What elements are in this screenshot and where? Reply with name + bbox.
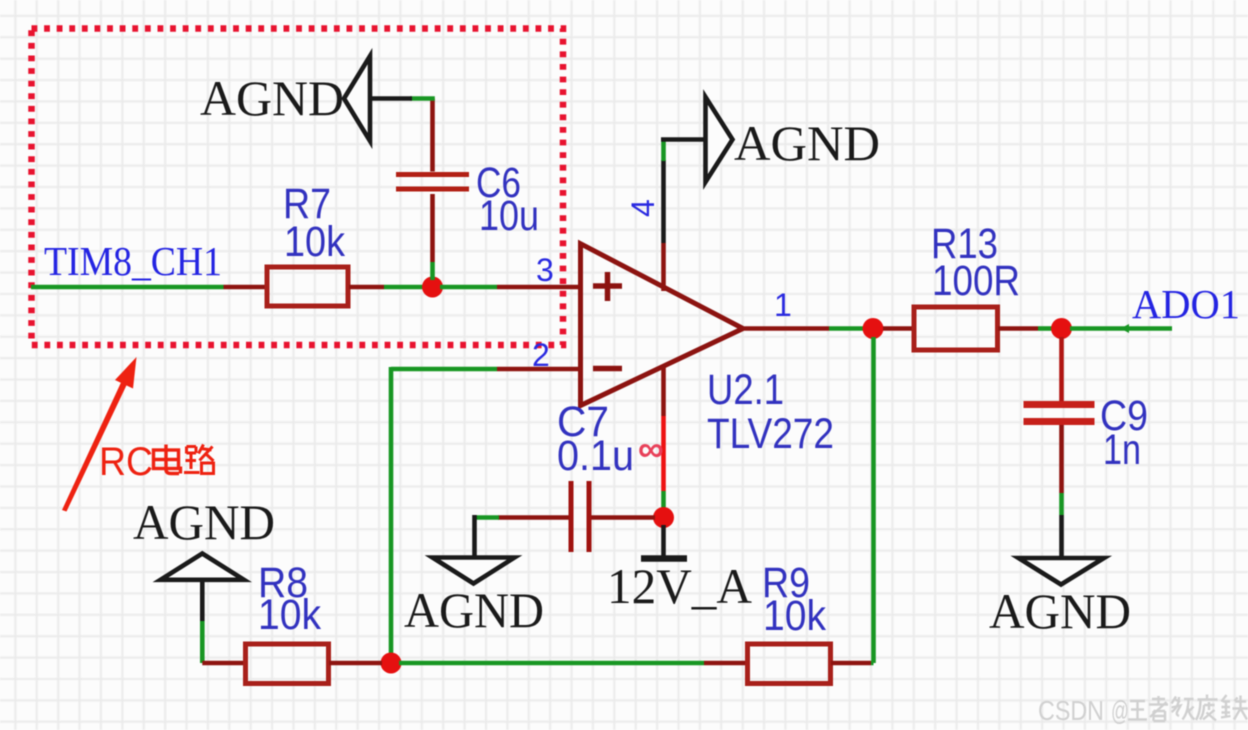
pin number 3 [536,252,554,288]
power 12V_A bar [641,555,687,562]
label C6 [476,159,521,207]
power text AGND (R8) [133,494,275,550]
svg-text:AGND: AGND [734,115,880,171]
op-amp plus input mark [593,272,622,301]
annotation glyph DIAN (electric) [154,445,181,474]
ground stem (C7) [472,515,477,558]
wire green to junction [384,285,425,290]
wire green to ADO1 junction [1038,326,1054,331]
wire green to output junction [829,326,866,331]
resistor R13 [914,307,998,350]
svg-text:TLV272: TLV272 [707,410,834,458]
wire R8 right lead [329,661,382,666]
svg-text:10k: 10k [763,592,826,640]
svg-text:12V_A: 12V_A [607,558,752,614]
wire bright red to 12V_A [661,416,666,491]
label C7 [557,398,609,446]
junction node at 12V_A [653,507,674,528]
wire green at AGND corner [410,96,435,101]
svg-text:AGND: AGND [404,582,544,638]
resistor R7 [267,267,348,306]
annotation text RC (red) [99,440,153,484]
junction node at ADO1 [1051,318,1072,339]
svg-text:1n: 1n [1103,426,1141,474]
wire R9 right lead [831,661,871,666]
wire green pin2 horizontal [391,367,497,372]
label 100R [932,257,1020,305]
power text AGND top-left [200,70,344,126]
svg-text:10u: 10u [479,192,539,240]
infinity mark (red) [638,428,664,469]
ground AGND (left-pointing triangle, top-left) [344,56,370,141]
ground AGND (right-pointing triangle, top-middle) [706,97,733,182]
pin number 1 [774,287,792,323]
junction node at R7/C6 [422,277,443,298]
net label ADO1 [1132,281,1240,327]
wire TIM8_CH1 to R7 (green) [31,285,224,290]
ground stem black (R8) [200,581,205,622]
wire green feedback right vertical [871,337,874,663]
watermark glyph TIE [1221,695,1248,720]
annotation glyph LU (road) [184,445,214,474]
wire lead into R8 left [202,661,245,666]
svg-text:ADO1: ADO1 [1132,281,1240,327]
label 10k (R7) [284,218,345,266]
svg-text:AGND: AGND [989,583,1131,639]
op-amp minus input mark [593,366,622,372]
label C9 [1100,392,1148,440]
svg-text:0.1u: 0.1u [557,432,634,480]
wire lead into R7 left [224,285,267,290]
ground stem (C9) [1059,515,1064,558]
svg-text:∞: ∞ [638,428,664,469]
wire R13 right lead [998,326,1038,331]
label U2.1 [707,366,784,414]
label R9 [762,559,810,607]
wire black pin4 vertical [661,160,666,243]
pin 8 lead below op-amp [661,367,666,416]
wire green bottom horizontal [399,661,704,666]
label R13 [931,220,998,268]
svg-text:AGND: AGND [133,494,275,550]
label R8 [258,559,308,607]
power 12V_A stem [661,525,666,556]
ground AGND (up triangle, R8) [161,554,245,580]
junction node bottom-left [381,653,402,674]
power text AGND top-middle [734,115,880,171]
wire green pin4 corner [661,138,666,161]
annotation arrow (red) [62,357,137,512]
capacitor C6 plates [396,172,469,192]
wire black to AGND (top-middle) [661,137,706,142]
svg-text:CSDN: CSDN [1038,695,1104,726]
watermark glyph JI [1172,697,1195,720]
ground AGND (down triangle, under C7) [433,558,515,584]
svg-text:3: 3 [536,252,554,288]
wire green above junction [430,262,435,280]
watermark CSDN @ [1038,695,1129,726]
svg-text:4: 4 [625,199,661,217]
RC-circuit red dotted selection box [32,29,564,346]
svg-text:RC: RC [99,440,153,484]
resistor R9 [748,644,831,684]
label 10k (R9) [763,592,826,640]
wire R7 right lead [349,285,384,290]
wire lead into R13 left [883,326,914,331]
wire black to AGND triangle [369,96,412,101]
wire lead into pin 3 [497,285,582,290]
label TLV272 [707,410,834,458]
svg-text:@: @ [1111,695,1129,726]
svg-text:10k: 10k [284,218,345,266]
svg-text:AGND: AGND [200,70,344,126]
wire green above C9 ground [1059,493,1064,515]
wire junction to pin3 (green) [440,285,497,290]
capacitor C7 right lead [592,515,656,520]
capacitor C6 vertical lead lower [430,194,435,262]
wire green feedback vertical [389,367,394,663]
junction node at output [863,318,884,339]
svg-text:1: 1 [774,287,792,323]
wire green ADO1 stub [1070,324,1172,333]
wire green above 12V_A junction [661,491,666,508]
ground AGND (down triangle, under C9) [1019,558,1105,585]
capacitor C6 upper lead [430,99,435,172]
label 1n (C9) [1103,426,1141,474]
power text 12V_A [607,558,752,614]
label 10u (C6) [479,192,539,240]
svg-text:10k: 10k [258,591,321,639]
wire green R8 ground vertical [200,621,205,663]
pin 4 lead (red) into op-amp top [661,243,666,291]
pin 1 output lead [745,326,830,331]
wire lead into pin 2 [497,367,582,372]
label 10k (R8) [258,591,321,639]
svg-text:TIM8_CH1: TIM8_CH1 [44,238,222,284]
power text AGND under C7 [404,582,544,638]
capacitor C7 left lead [498,515,569,520]
svg-text:100R: 100R [932,257,1020,305]
capacitor C7 plates [569,481,592,552]
watermark glyph ZHE [1149,696,1168,721]
wire lead into R9 left [704,661,747,666]
watermark glyph FEI [1196,695,1218,721]
net label TIM8_CH1 [44,238,222,284]
resistor R8 [246,644,329,684]
op-amp U2.1 triangle [581,244,744,406]
pin number 2 [532,337,550,373]
label R7 [283,180,331,228]
power text AGND under C9 [989,583,1131,639]
watermark glyph WANG [1128,701,1147,720]
capacitor C9 upper lead [1059,337,1064,401]
wire green at C7 ground corner [475,515,500,520]
svg-text:U2.1: U2.1 [707,366,784,414]
label 0.1u (C7) [557,432,634,480]
capacitor C9 plates [1024,401,1095,425]
pin number 4 (rotated) [625,199,661,217]
capacitor C9 lower lead [1059,425,1064,493]
